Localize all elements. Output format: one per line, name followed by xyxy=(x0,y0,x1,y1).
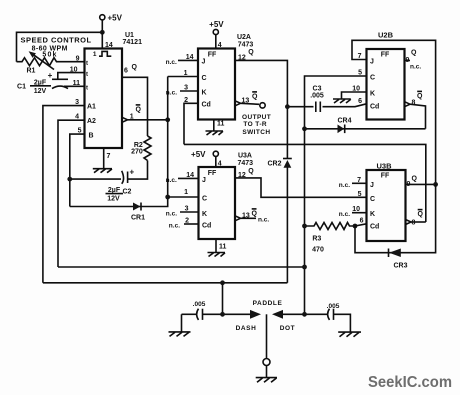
node: dash cap / A1 bus junction xyxy=(220,312,225,317)
pin 1 Qbar labels xyxy=(130,105,142,121)
svg-text:7: 7 xyxy=(358,53,362,60)
svg-text:n.c.: n.c. xyxy=(258,216,269,223)
svg-text:14: 14 xyxy=(186,54,194,61)
capacitor C1 2uF 12V xyxy=(17,71,68,95)
resistor R2 270 xyxy=(131,136,151,161)
wire U3B pin 9 Q to feedback node xyxy=(406,175,436,188)
ground (U2B pin 10 K) xyxy=(333,99,351,103)
svg-text:4: 4 xyxy=(75,114,79,121)
flip-flop U3B 7473 xyxy=(367,161,406,241)
wire +5V junction to U1 pin 14 xyxy=(101,32,103,48)
svg-text:C: C xyxy=(370,196,375,203)
svg-text:13: 13 xyxy=(242,212,250,219)
node: +5V junction xyxy=(100,30,105,35)
svg-text:270: 270 xyxy=(131,149,143,156)
svg-text:12: 12 xyxy=(238,54,246,61)
svg-text:+5V: +5V xyxy=(108,13,123,22)
pin 13 Qbar labels xyxy=(242,92,259,104)
svg-text:K: K xyxy=(370,211,375,218)
svg-text:B: B xyxy=(89,132,94,139)
svg-text:8: 8 xyxy=(412,220,416,227)
svg-text:11: 11 xyxy=(219,244,227,251)
svg-text:U2B: U2B xyxy=(378,31,394,40)
dash contact arrow xyxy=(250,310,261,319)
node: R3 left junction xyxy=(302,224,307,229)
svg-text:C: C xyxy=(370,75,375,82)
svg-text:+5V: +5V xyxy=(209,20,224,29)
wire CR2 vertical (DASH net) xyxy=(286,107,288,159)
svg-text:A2: A2 xyxy=(87,118,96,125)
wire U1 pin 3 A1 (down left side) xyxy=(43,106,85,283)
node: U3B Q / U2B J / CR3 junction xyxy=(433,182,438,187)
wire A1 bus (U1 pin 3 to CR2 / DASH net) xyxy=(43,282,288,284)
svg-text:8: 8 xyxy=(412,100,416,107)
ground (U2A pin 11) xyxy=(206,131,224,135)
svg-text:DASH: DASH xyxy=(236,325,257,332)
wire U2A pin 12 Q to U2B C xyxy=(235,60,287,106)
svg-text:7473: 7473 xyxy=(238,160,254,167)
svg-text:Cd: Cd xyxy=(202,102,211,109)
svg-text:t: t xyxy=(86,86,88,92)
svg-text:CR1: CR1 xyxy=(131,215,145,222)
one-shot U1 74121 xyxy=(85,32,143,160)
svg-text:TO T-R: TO T-R xyxy=(243,121,267,128)
svg-text:+: + xyxy=(48,71,53,80)
svg-text:11: 11 xyxy=(217,121,225,128)
svg-text:7: 7 xyxy=(357,177,361,184)
svg-text:7473: 7473 xyxy=(238,42,254,49)
wire dash cap to arrow xyxy=(203,313,251,315)
svg-text:.005: .005 xyxy=(310,92,324,99)
svg-text:12V: 12V xyxy=(107,196,120,203)
svg-text:n.c.: n.c. xyxy=(169,223,180,230)
svg-text:6: 6 xyxy=(358,98,362,105)
wire U2A pin 13 Qbar to output terminal xyxy=(235,101,259,106)
svg-text:n.c.: n.c. xyxy=(166,90,177,97)
diode CR2 xyxy=(267,159,291,168)
wire U3A pin 13 Qbar n.c. xyxy=(235,216,269,224)
svg-text:Q: Q xyxy=(418,211,424,218)
node: U1 Qbar / U2A C junction xyxy=(165,117,170,122)
svg-text:A1: A1 xyxy=(87,104,96,111)
ground (U3A pin 11) xyxy=(208,253,226,257)
capacitor .005 (dot) xyxy=(327,303,340,320)
wire CR3 line xyxy=(355,184,436,252)
wire U1 pin 4 A2 (down left side) xyxy=(58,120,85,267)
diode CR4 xyxy=(337,118,351,134)
svg-text:3: 3 xyxy=(75,99,79,106)
wire DASH side of paddle line xyxy=(182,313,197,315)
flip-flop U3A 7473 xyxy=(199,152,254,239)
wire +5V bus to speed control loop xyxy=(17,32,103,61)
wire U2B pin 9 Q n.c. xyxy=(405,50,422,71)
svg-text:n.c.: n.c. xyxy=(166,177,177,184)
svg-text:470: 470 xyxy=(312,247,324,254)
svg-text:R1: R1 xyxy=(27,68,36,75)
svg-text:9: 9 xyxy=(407,181,411,188)
flip-flop U2A 7473 xyxy=(198,34,253,120)
svg-text:OUTPUT: OUTPUT xyxy=(242,114,271,121)
svg-text:1: 1 xyxy=(93,51,97,58)
svg-text:.005: .005 xyxy=(193,301,206,308)
svg-text:FF: FF xyxy=(381,52,390,59)
svg-text:9: 9 xyxy=(76,56,80,63)
svg-text:U2A: U2A xyxy=(237,34,251,41)
diode CR3 xyxy=(389,249,408,270)
svg-text:14: 14 xyxy=(186,172,194,179)
wire DOT side of paddle line xyxy=(283,313,327,315)
wire U2B pin 7 J feedback loop to U3B Q xyxy=(352,40,436,184)
svg-text:C1: C1 xyxy=(17,84,26,91)
+5V supply terminal (U3A pin 4) xyxy=(191,150,222,167)
wire U3A pin 14 J n.c. xyxy=(166,172,199,184)
svg-text:13: 13 xyxy=(242,97,250,104)
svg-text:5: 5 xyxy=(358,191,362,198)
svg-text:FF: FF xyxy=(381,172,390,179)
svg-text:SeekIC.com: SeekIC.com xyxy=(368,374,452,391)
diode CR1 xyxy=(131,203,145,222)
svg-text:PADDLE: PADDLE xyxy=(253,300,283,307)
wire U2A pin 14 J n.c. xyxy=(166,54,198,66)
svg-text:2: 2 xyxy=(184,97,188,104)
wire U2A pin 3 K n.c. xyxy=(166,85,198,97)
svg-text:14: 14 xyxy=(105,42,113,49)
wire U3A pin 2 Cd n.c. xyxy=(169,218,199,230)
svg-text:74121: 74121 xyxy=(123,39,143,46)
svg-text:Q: Q xyxy=(411,50,417,57)
wire U3A pin 12 Q to U3B C (long) xyxy=(235,178,367,197)
svg-text:Cd: Cd xyxy=(370,104,379,111)
+5V supply terminal (U2A pin 4) xyxy=(209,20,224,49)
wire U1 pin 11 to C1 bottom plate xyxy=(64,85,85,87)
svg-text:J: J xyxy=(202,177,206,184)
svg-text:t: t xyxy=(86,72,88,78)
wire dot cap to ground xyxy=(334,314,351,332)
wire A2 bus (U1 pin 4 to DOT net) xyxy=(58,266,305,268)
svg-text:+5V: +5V xyxy=(191,150,206,159)
wire U1 pin 10 to C1 xyxy=(58,73,85,80)
svg-text:C: C xyxy=(202,75,207,82)
svg-text:R3: R3 xyxy=(312,236,321,243)
svg-text:9: 9 xyxy=(406,57,410,64)
wire U3A pin 3 K n.c. xyxy=(166,206,199,218)
resistor R3 470 xyxy=(305,223,356,254)
svg-text:SPEED CONTROL: SPEED CONTROL xyxy=(20,35,91,44)
pin 6 Q labels xyxy=(124,64,138,75)
svg-text:1: 1 xyxy=(130,113,134,120)
wire U2A pin 1 C xyxy=(168,70,198,77)
svg-text:Q: Q xyxy=(252,210,258,217)
wire CR1 line xyxy=(70,197,168,207)
wire U3A pin 1 C xyxy=(168,189,199,197)
wire U3B pin 6 Cd to R3 junction xyxy=(355,217,367,226)
svg-text:Q: Q xyxy=(412,175,418,182)
ground (dot cap) xyxy=(338,332,361,337)
svg-text:n.c.: n.c. xyxy=(339,211,350,218)
svg-text:K: K xyxy=(202,211,207,218)
wire C2 left to B-net junction xyxy=(70,178,121,180)
wire U1 pin 6 Q to R2 xyxy=(122,77,148,136)
svg-text:3: 3 xyxy=(184,85,188,92)
svg-text:Cd: Cd xyxy=(202,223,211,230)
wire R2 bottom to C2 xyxy=(128,161,148,180)
svg-text:Cd: Cd xyxy=(370,224,379,231)
svg-text:J: J xyxy=(370,182,374,189)
svg-text:n.c.: n.c. xyxy=(410,63,421,70)
svg-text:CR2: CR2 xyxy=(267,161,281,168)
svg-text:6: 6 xyxy=(360,217,364,224)
svg-text:C2: C2 xyxy=(123,188,132,195)
svg-text:t: t xyxy=(86,61,88,67)
node: U3A C / CR1 junction xyxy=(165,195,170,200)
svg-text:5: 5 xyxy=(78,127,82,134)
svg-text:12V: 12V xyxy=(34,88,47,95)
svg-text:FF: FF xyxy=(208,51,217,58)
svg-text:5: 5 xyxy=(358,70,362,77)
node: DOT net / CR4 junction xyxy=(302,126,307,131)
ground (paddle common) xyxy=(256,378,277,383)
svg-text:U3B: U3B xyxy=(376,161,392,170)
wire U3B pin 8 Qbar to long bus xyxy=(406,210,426,227)
svg-text:12: 12 xyxy=(238,172,246,179)
svg-text:2: 2 xyxy=(185,218,189,225)
paddle common vertical with terminal xyxy=(263,314,270,377)
svg-text:Q: Q xyxy=(132,64,138,71)
output terminal OUTPUT TO T-R SWITCH xyxy=(242,103,271,136)
svg-text:Q: Q xyxy=(417,93,423,100)
svg-text:3: 3 xyxy=(185,206,189,213)
svg-text:U3A: U3A xyxy=(238,152,252,159)
node: U2A Q / C3 / CR2 junction xyxy=(285,104,290,109)
svg-text:K: K xyxy=(370,91,375,98)
svg-text:CR4: CR4 xyxy=(337,118,351,125)
svg-text:DOT: DOT xyxy=(280,325,296,332)
flip-flop U2B 7473 xyxy=(367,31,405,120)
ground (dash cap) xyxy=(169,314,191,336)
wire U2B pin 6 Cd / C3 line xyxy=(287,98,366,107)
wire U1 pin 7 to ground xyxy=(103,148,105,169)
svg-text:Q: Q xyxy=(136,106,142,113)
wire U3B pin 7 J n.c. xyxy=(339,177,367,189)
capacitor C3 .005 xyxy=(310,86,324,113)
svg-text:J: J xyxy=(202,58,206,65)
dot contact arrow xyxy=(272,310,283,319)
svg-text:FF: FF xyxy=(208,170,217,177)
+5V supply terminal (top left) xyxy=(100,13,123,31)
wire U2A pin 2 Cd to long bus xyxy=(184,97,198,145)
node: A2 / DOT net junction xyxy=(302,265,307,270)
wire U3B pin 10 K n.c. xyxy=(339,206,367,218)
svg-text:n.c.: n.c. xyxy=(339,182,350,189)
wire clock vertical (U2A C to U3A C) xyxy=(167,77,169,198)
svg-text:Q: Q xyxy=(248,168,254,175)
node: dot cap / DOT net junction xyxy=(302,312,307,317)
svg-text:J: J xyxy=(370,58,374,65)
wire U3A pin 11 to ground xyxy=(216,239,227,253)
svg-text:1: 1 xyxy=(184,189,188,196)
svg-text:C: C xyxy=(202,196,207,203)
svg-text:Q: Q xyxy=(248,49,254,56)
svg-text:10: 10 xyxy=(352,86,360,93)
svg-text:10: 10 xyxy=(70,67,78,74)
pin 13 Qbar labels (U3A) xyxy=(242,209,258,219)
label SPEED CONTROL xyxy=(20,35,91,58)
svg-text:7: 7 xyxy=(107,153,111,160)
wire U1 pin 5 B down to CR1 xyxy=(70,134,85,206)
wire U2B pin 5 C down the DOT net xyxy=(305,70,367,129)
svg-text:SWITCH: SWITCH xyxy=(242,129,270,136)
wire DASH junction vertical xyxy=(222,283,224,315)
svg-text:CR3: CR3 xyxy=(393,263,407,270)
svg-text:n.c.: n.c. xyxy=(166,211,177,218)
wire DOT net vertical xyxy=(304,129,306,314)
wire CR4 line xyxy=(305,128,426,130)
potentiometer R1 50k xyxy=(17,51,85,74)
svg-text:.005: .005 xyxy=(327,303,340,310)
node: C2 / pin5 B junction xyxy=(67,177,72,182)
svg-text:K: K xyxy=(202,89,207,96)
wire U2B pin 8 Qbar to CR4 xyxy=(405,91,426,128)
pin 12 Q labels (U3A) xyxy=(238,168,254,179)
node: A1 bus / DASH cap junction xyxy=(220,280,225,285)
ground (U1 pin 7) xyxy=(93,169,112,173)
wire U2A pin 11 to ground xyxy=(214,120,225,132)
svg-text:11: 11 xyxy=(73,80,81,87)
svg-text:10: 10 xyxy=(352,206,360,213)
wire U1 pin 1 Qbar to U2A clock net xyxy=(122,117,168,122)
node: R3 / U3B Cd junction xyxy=(353,224,358,229)
svg-text:1: 1 xyxy=(184,70,188,77)
capacitor C2 2uF 12V xyxy=(106,167,135,202)
pin 12 Q labels xyxy=(238,49,254,62)
svg-text:+: + xyxy=(129,167,134,176)
capacitor .005 (dash) xyxy=(193,301,206,320)
wire U2B pin 10 K to ground xyxy=(342,86,367,99)
svg-text:n.c.: n.c. xyxy=(166,59,177,66)
svg-text:6: 6 xyxy=(124,68,128,75)
wire long bus U2A Cd to U3B Qbar xyxy=(184,144,426,222)
svg-text:Q: Q xyxy=(252,93,258,100)
